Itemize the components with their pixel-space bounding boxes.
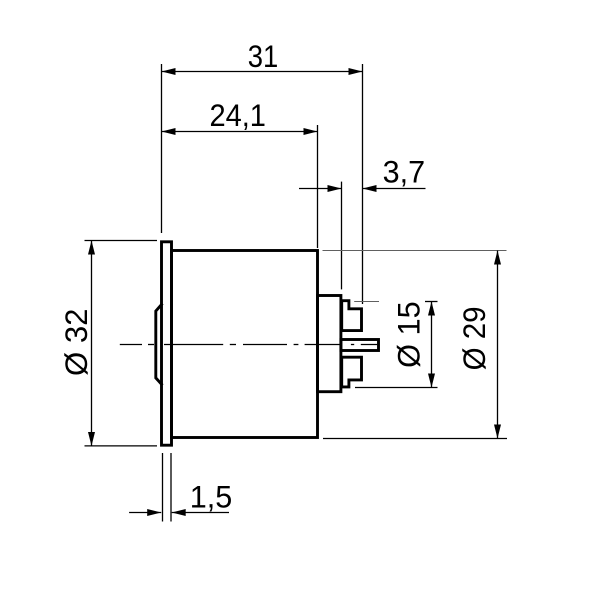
- svg-text:Ø 15: Ø 15: [391, 301, 427, 368]
- svg-text:Ø 29: Ø 29: [456, 306, 492, 370]
- svg-text:31: 31: [248, 38, 279, 74]
- svg-text:3,7: 3,7: [383, 153, 426, 189]
- svg-text:24,1: 24,1: [209, 97, 266, 133]
- svg-text:Ø 32: Ø 32: [58, 309, 94, 377]
- svg-text:1,5: 1,5: [190, 479, 233, 515]
